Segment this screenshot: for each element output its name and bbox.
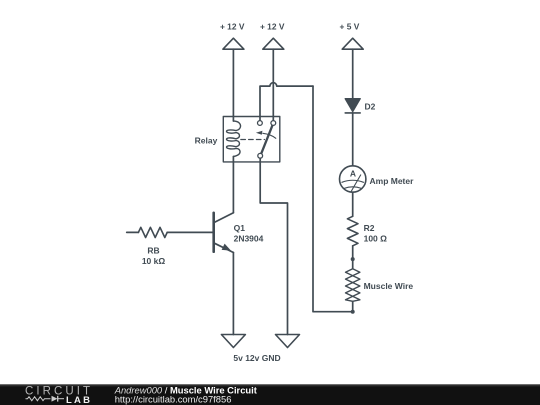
svg-text:+ 5 V: + 5 V (340, 21, 360, 31)
svg-text:RB: RB (147, 245, 159, 255)
svg-text:100 Ω: 100 Ω (364, 233, 388, 243)
relay terminal NO (271, 121, 276, 126)
wire diode to meter (352, 113, 354, 166)
svg-text:+ 12 V: + 12 V (260, 21, 285, 31)
power supply +12V #1 (223, 38, 244, 49)
wire R2 to node (352, 246, 354, 259)
svg-text:Amp Meter: Amp Meter (370, 176, 415, 186)
power supply +12V #2 (263, 38, 284, 49)
svg-text:LAB: LAB (66, 395, 90, 405)
relay box (223, 117, 279, 162)
wire node to muscle wire (352, 259, 354, 269)
logo diode (52, 396, 58, 402)
wire coil bottom to collector (232, 157, 234, 213)
transistor Q1 collector lead (215, 213, 234, 223)
amp meter M1 (340, 166, 366, 192)
svg-text:2N3904: 2N3904 (234, 233, 264, 243)
diode D2 (345, 99, 360, 112)
relay terminal NC (258, 121, 263, 126)
transistor Q1 emitter lead (215, 243, 234, 252)
wire right rail down (313, 86, 353, 312)
svg-text:5v 12v GND: 5v 12v GND (233, 353, 280, 363)
svg-text:A: A (350, 168, 356, 178)
logo resistor zigzag (26, 397, 51, 401)
svg-text:Relay: Relay (195, 136, 218, 146)
svg-text:+ 12 V: + 12 V (220, 21, 245, 31)
relay arrow arc (263, 133, 276, 138)
wire muscle wire to bottom node (352, 301, 354, 311)
svg-text:10 kΩ: 10 kΩ (142, 256, 166, 266)
ground 1 (221, 335, 245, 348)
transistor Q1 base bar (212, 213, 215, 252)
relay switch arm (261, 126, 272, 154)
relay terminal common (258, 153, 263, 158)
wire emitter to ground 1 (232, 253, 234, 335)
wire RB to base (167, 231, 212, 233)
muscle wire element (346, 269, 360, 302)
power supply +5V (342, 38, 363, 49)
resistor RB (138, 227, 167, 237)
resistor R2 (347, 216, 358, 246)
svg-text:Q1: Q1 (234, 223, 246, 233)
wire +12V#2 to relay NO terminal (272, 49, 274, 120)
wire +12V#1 to relay coil (232, 49, 234, 121)
junction node top of muscle wire (351, 257, 355, 261)
footer bar (0, 384, 540, 405)
svg-text:R2: R2 (364, 223, 375, 233)
relay coil (227, 121, 241, 157)
transistor Q1 emitter arrow (222, 244, 231, 251)
svg-text:Muscle Wire: Muscle Wire (364, 281, 414, 291)
relay dashed link (241, 139, 265, 141)
wire RB left stub (127, 231, 139, 233)
wire meter to R2 (352, 192, 354, 216)
ground 2 (276, 335, 300, 348)
wire relay NC terminal up and over to right rail (with hop) (260, 83, 313, 121)
svg-text:D2: D2 (365, 101, 376, 111)
relay arrow head (256, 131, 263, 135)
junction node bottom (351, 310, 355, 314)
svg-text:http://circuitlab.com/c97f856: http://circuitlab.com/c97f856 (115, 394, 232, 405)
wire relay common to ground 2 (260, 158, 287, 334)
wire +5V to diode (352, 49, 354, 98)
